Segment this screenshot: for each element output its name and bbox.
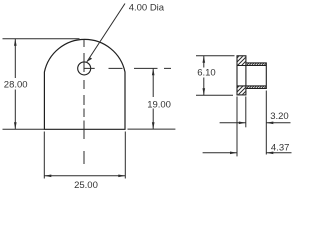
body outline (246, 63, 266, 89)
dim 3.20 arrowheads (239, 122, 246, 125)
dim 4.37 dimension lines (203, 152, 292, 154)
dim 6.10 arrowheads (203, 56, 206, 63)
hatch top wall strip (245, 63, 269, 67)
dim 28.00 extension lines (3, 39, 80, 130)
leader arrowhead (87, 58, 92, 62)
dim 3.20 dimension lines (220, 122, 291, 124)
dim 25.00 arrowheads (44, 175, 51, 178)
dim 28.00 arrowheads (14, 39, 17, 46)
dim 6.10 dimension line (203, 56, 205, 95)
vertical center line of tab (83, 40, 85, 164)
svg-text:3.20: 3.20 (270, 111, 289, 122)
dim 28.00 dimension line (14, 39, 16, 129)
dim 25.00 extension lines (44, 132, 125, 179)
svg-text:28.00: 28.00 (4, 79, 28, 90)
horizontal center line of hole (84, 67, 171, 69)
hole (4.00 Dia) (78, 62, 91, 75)
svg-text:4.00 Dia: 4.00 Dia (129, 3, 165, 14)
tab outline (front view) (44, 39, 125, 129)
dim 19.00 bottom extension line (128, 128, 176, 130)
dim 4.37 extension lines (237, 91, 266, 157)
hatch flange top square (233, 46, 249, 78)
svg-text:6.10: 6.10 (197, 67, 216, 78)
flange outline (side section view) (237, 56, 246, 95)
dim 3.20 extension line (flange right face) (245, 97, 247, 128)
dim 6.10 extension lines (196, 56, 235, 95)
leader line for 4.00 Dia (87, 4, 125, 62)
svg-text:4.37: 4.37 (271, 143, 290, 154)
svg-text:25.00: 25.00 (74, 180, 98, 191)
hatch flange bottom square (233, 76, 249, 108)
dim 25.00 dimension line (44, 175, 125, 177)
dim 4.37 arrowheads (230, 152, 237, 155)
dim 19.00 arrowheads (152, 68, 155, 75)
dim 19.00 dimension line (152, 68, 154, 129)
svg-text:19.00: 19.00 (147, 99, 171, 110)
bore lines (237, 66, 266, 86)
hatch bottom wall strip (245, 86, 269, 90)
